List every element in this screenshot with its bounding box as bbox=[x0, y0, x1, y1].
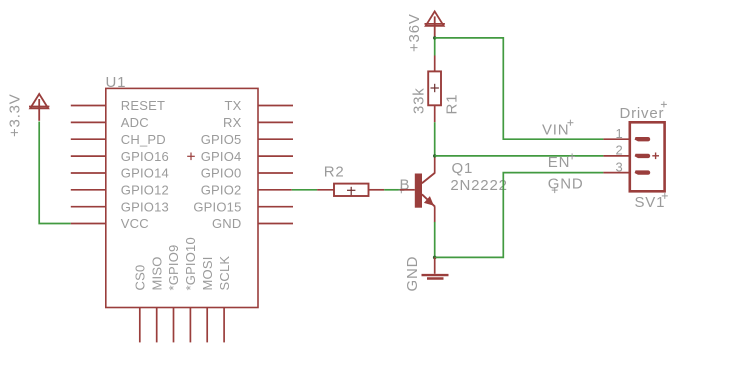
svg-text:+36V: +36V bbox=[406, 13, 423, 52]
junction at +36V node bbox=[433, 36, 436, 39]
connector SV1 body bbox=[630, 122, 665, 191]
svg-text:GPIO12: GPIO12 bbox=[121, 183, 169, 198]
svg-text:R2: R2 bbox=[324, 163, 345, 180]
svg-text:33k: 33k bbox=[411, 87, 428, 114]
svg-text:+3.3V: +3.3V bbox=[7, 93, 24, 137]
svg-text:GPIO0: GPIO0 bbox=[201, 166, 242, 181]
wire emitter down bbox=[434, 222, 436, 258]
SV1 origin cross bbox=[652, 153, 659, 160]
svg-text:RX: RX bbox=[223, 115, 242, 130]
svg-text:RESET: RESET bbox=[121, 98, 165, 113]
svg-text:GPIO13: GPIO13 bbox=[121, 199, 169, 214]
junction collector node bbox=[433, 154, 436, 157]
svg-text:U1: U1 bbox=[106, 74, 127, 91]
svg-text:TX: TX bbox=[224, 98, 241, 113]
U1 bottom pins bbox=[140, 308, 224, 343]
wire VIN net bbox=[435, 38, 604, 139]
U1 left pin names bbox=[121, 98, 169, 231]
svg-text:3: 3 bbox=[615, 159, 622, 174]
GND label cross bbox=[552, 187, 558, 193]
SV1 refdes cross bbox=[662, 193, 668, 199]
svg-text:CH_PD: CH_PD bbox=[121, 132, 166, 147]
resistor R2 bbox=[317, 184, 384, 196]
EN label cross bbox=[569, 153, 575, 159]
connector SV1 pins bbox=[603, 139, 629, 172]
wire collector node to SV1 pin 2 bbox=[435, 155, 604, 157]
svg-text:SCLK: SCLK bbox=[217, 256, 232, 291]
SV1 pad 2 bbox=[635, 154, 651, 158]
wire R2 to Q1 base bbox=[384, 189, 400, 191]
svg-text:GND: GND bbox=[404, 256, 421, 292]
svg-text:GPIO16: GPIO16 bbox=[121, 149, 169, 164]
svg-text:SV1: SV1 bbox=[635, 194, 666, 211]
svg-text:VIN: VIN bbox=[542, 121, 569, 138]
U1 right pin names bbox=[193, 98, 241, 231]
U1 origin cross bbox=[187, 153, 195, 161]
R1 origin cross bbox=[431, 84, 439, 92]
junction emitter/GND node bbox=[433, 256, 437, 260]
svg-text:R1: R1 bbox=[444, 94, 461, 115]
svg-text:2: 2 bbox=[615, 143, 622, 158]
SV1 pad 1 bbox=[635, 137, 651, 141]
svg-text:GPIO2: GPIO2 bbox=[201, 183, 242, 198]
svg-text:2N2222: 2N2222 bbox=[450, 177, 507, 194]
svg-text:MOSI: MOSI bbox=[200, 256, 215, 290]
B label cross bbox=[398, 187, 404, 193]
IC U1 bbox=[106, 88, 258, 307]
wire +36V to R1 bbox=[434, 37, 436, 56]
svg-text:GPIO4: GPIO4 bbox=[201, 149, 242, 164]
U1 right pins bbox=[258, 106, 293, 224]
svg-text:MISO: MISO bbox=[149, 256, 164, 290]
svg-text:GPIO14: GPIO14 bbox=[121, 166, 169, 181]
svg-text:GND: GND bbox=[212, 216, 242, 231]
supply +36V bbox=[425, 11, 445, 38]
ground bbox=[422, 257, 449, 278]
wire R1 to collector node bbox=[434, 122, 436, 156]
svg-text:CS0: CS0 bbox=[133, 265, 148, 291]
svg-text:VCC: VCC bbox=[121, 216, 149, 231]
svg-text:Q1: Q1 bbox=[452, 160, 474, 177]
svg-text:*GPIO9: *GPIO9 bbox=[166, 245, 181, 291]
U1 left pins bbox=[71, 106, 106, 224]
svg-text:GPIO5: GPIO5 bbox=[201, 132, 242, 147]
resistor R1 bbox=[428, 56, 441, 123]
svg-text:ADC: ADC bbox=[121, 115, 149, 130]
wire GPIO2 to R2 bbox=[292, 189, 317, 191]
U1 bottom pin names bbox=[133, 237, 232, 290]
svg-text:GPIO15: GPIO15 bbox=[193, 199, 241, 214]
Driver label cross bbox=[661, 101, 667, 107]
svg-text:*GPIO10: *GPIO10 bbox=[183, 237, 198, 290]
svg-text:Driver: Driver bbox=[620, 105, 665, 122]
wire EN net bbox=[435, 173, 604, 258]
svg-text:EN: EN bbox=[548, 154, 570, 171]
supply +3.3V bbox=[29, 94, 49, 121]
transistor Q1 bbox=[400, 156, 435, 222]
wire +3.3V to VCC bbox=[39, 122, 71, 224]
VIN label cross bbox=[567, 120, 573, 126]
R2 origin cross bbox=[347, 187, 355, 195]
svg-text:1: 1 bbox=[615, 126, 622, 141]
SV1 pad 3 bbox=[635, 170, 651, 174]
